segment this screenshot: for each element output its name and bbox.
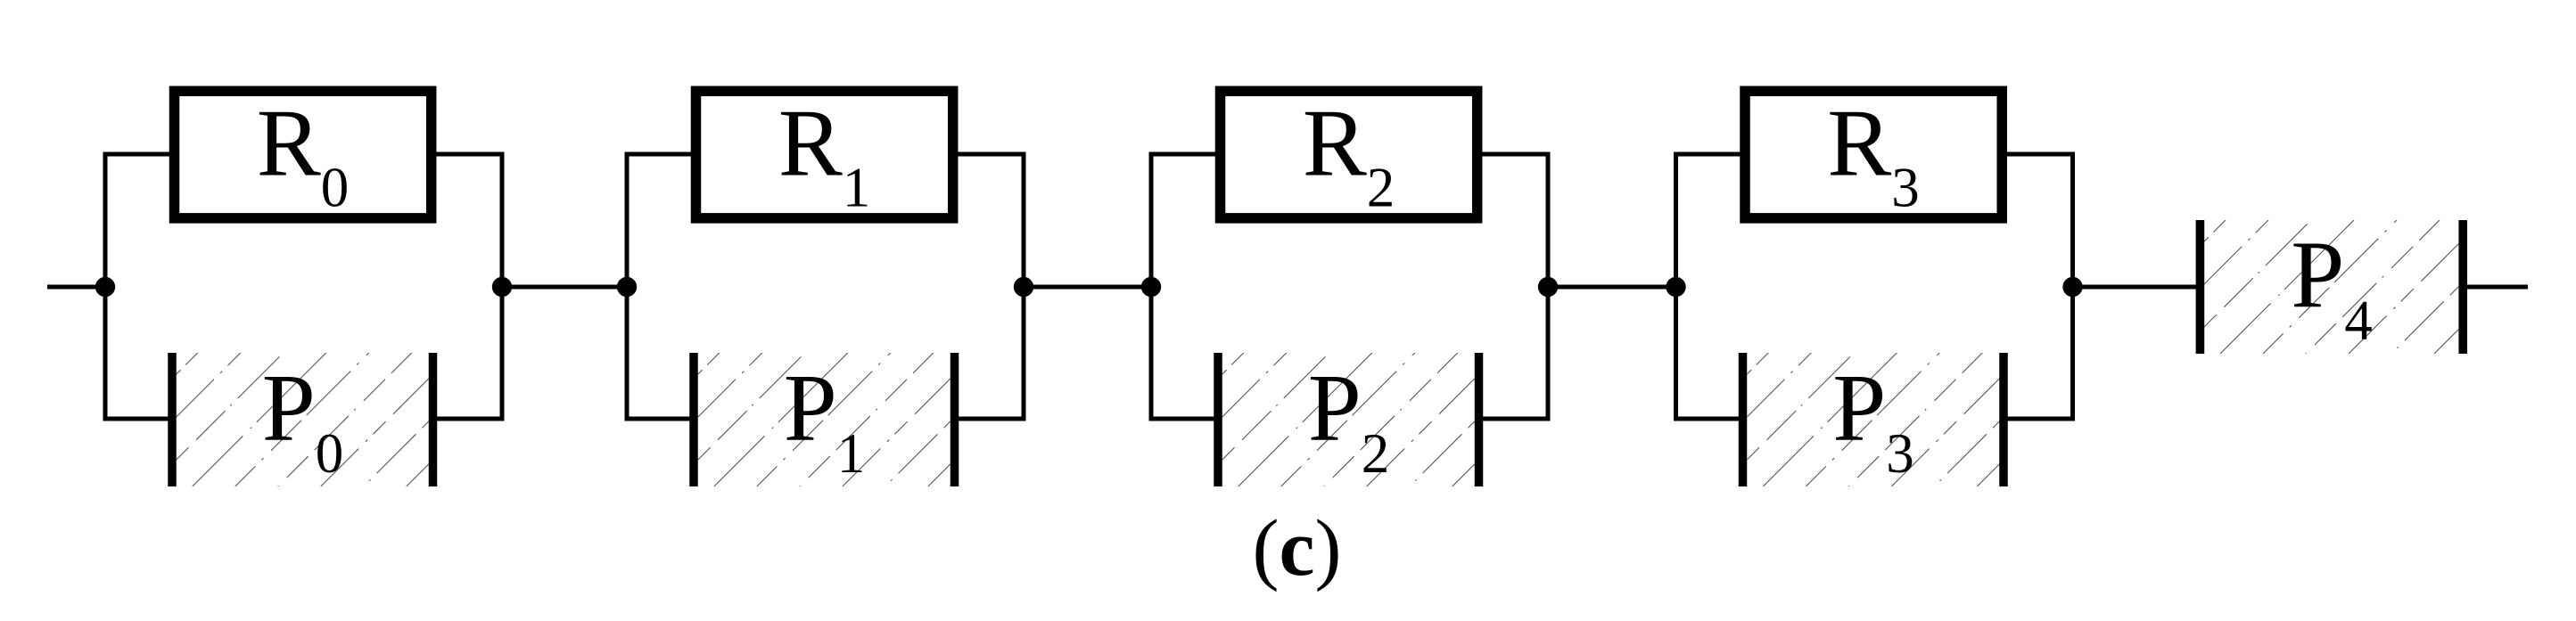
svg-text:(c): (c)	[1253, 504, 1342, 592]
